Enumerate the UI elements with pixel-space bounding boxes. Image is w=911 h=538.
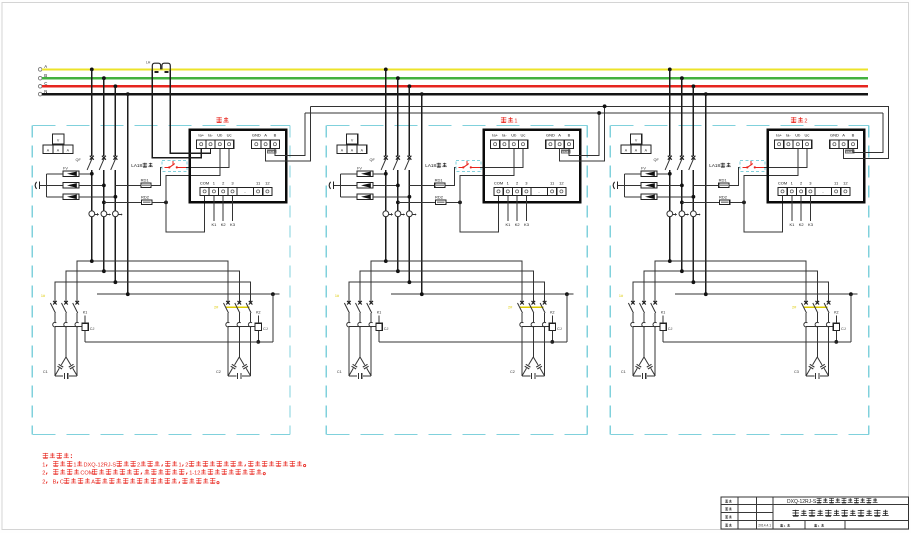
svg-text:DXQ-12RJ-S: DXQ-12RJ-S	[84, 462, 117, 468]
svg-text:2: 2	[804, 119, 807, 125]
svg-text:Ia+: Ia+	[776, 133, 782, 138]
svg-text:K2: K2	[515, 222, 521, 227]
unit2 RS485 tag	[561, 150, 571, 154]
unit2 title fuji1	[501, 117, 518, 124]
svg-text:CJ: CJ	[557, 327, 562, 331]
unit2 controller comm terminals GND A B	[546, 133, 574, 149]
unit1 wire CT to Ia-	[170, 69, 210, 153]
svg-text:K1: K1	[505, 222, 511, 227]
unit2 fuse RD2	[396, 194, 462, 204]
unit2 contactor CJ (bank 1)	[335, 294, 376, 327]
svg-text:CJ: CJ	[90, 327, 95, 331]
title block table	[721, 497, 909, 529]
unit3 fuse RD2	[680, 194, 746, 204]
unit1 rail neutral (R4)	[97, 292, 280, 342]
unit1 circuit breaker QF	[76, 156, 118, 211]
svg-text:A: A	[558, 133, 561, 138]
unit1 capacitor bank C2	[216, 327, 251, 379]
unit1 wire terminal A to trunk	[266, 106, 311, 161]
unit2 contactor coil CJ/K1 (bank 1)	[376, 311, 389, 342]
unit2 wire LA18 to Uc terminal	[480, 149, 523, 168]
svg-text:C2: C2	[510, 370, 515, 374]
svg-text:2: 2	[42, 471, 45, 477]
svg-text:K3: K3	[230, 222, 236, 227]
svg-text:12: 12	[559, 181, 564, 186]
bus C phase line	[38, 81, 868, 88]
svg-text:C1: C1	[337, 370, 342, 374]
svg-text:LA18: LA18	[131, 163, 142, 168]
unit1 tap wire N	[126, 92, 130, 294]
svg-text:QF: QF	[654, 158, 660, 162]
unit3 contactor coil CJ/K1 (bank 1)	[660, 311, 673, 342]
unit2 wire terminal B to trunk	[569, 113, 599, 156]
unit2 wire Ub to RD2 and COM	[460, 149, 514, 232]
svg-text:1: 1	[73, 462, 76, 468]
svg-text:..: ..	[822, 189, 824, 194]
svg-text:Uc: Uc	[521, 133, 526, 138]
unit3 dashed enclosure	[610, 125, 869, 434]
unit2 rail phase C (R3)	[349, 280, 545, 302]
svg-text:A: A	[264, 133, 267, 138]
unit2 panel meters V and A	[337, 134, 367, 153]
svg-text:C: C	[60, 480, 64, 486]
svg-text:RD2: RD2	[719, 194, 728, 199]
svg-text:LA18: LA18	[709, 163, 720, 168]
unit2 circuit breaker QF	[370, 156, 412, 211]
unit2 output wires K1 K2 K3	[505, 196, 529, 227]
unit2 tap wire N	[420, 92, 424, 294]
unit3 tap wire N	[704, 92, 708, 294]
svg-text:QF: QF	[76, 158, 82, 162]
unit1 current meters row	[89, 211, 123, 282]
unit2 trunk junction dots	[597, 104, 606, 115]
unit3 rail phase A (R1)	[655, 259, 806, 302]
unit1 capacitor bank C1	[43, 327, 77, 379]
unit2 controller output terminals COM 1 2 3 .. 11 12	[494, 181, 566, 196]
svg-text:12: 12	[265, 181, 270, 186]
bus B phase line	[38, 73, 868, 80]
svg-text:B: B	[53, 480, 57, 486]
unit3 surge arresters FV	[624, 167, 695, 200]
unit3 rail phase B (R2)	[644, 269, 817, 302]
svg-text:K2: K2	[221, 222, 227, 227]
unit2 tap wire phase A	[384, 68, 388, 156]
svg-text:FV: FV	[641, 167, 646, 171]
svg-text:Ia-: Ia-	[786, 133, 791, 138]
unit3 title fuji2	[791, 117, 808, 124]
svg-text:K2: K2	[256, 311, 260, 315]
svg-text:A: A	[91, 480, 95, 486]
unit1 tap wire phase A	[90, 68, 94, 156]
unit3 panel meters V and A	[621, 134, 651, 153]
unit3 controller box	[768, 130, 865, 203]
unit1 controller input terminals Ia+ Ia- Ub Uc	[197, 133, 234, 149]
svg-text:CJ: CJ	[384, 327, 389, 331]
svg-text:Ia+: Ia+	[198, 133, 204, 138]
unit1 ground / earth symbol	[35, 182, 46, 190]
svg-text:GND: GND	[546, 133, 555, 138]
svg-text:K1: K1	[661, 311, 665, 315]
svg-text:Ia-: Ia-	[208, 133, 213, 138]
unit1 contactor CJ (bank 2)	[214, 301, 255, 327]
unit1 controller comm terminals GND A B	[252, 133, 280, 149]
svg-text:B: B	[568, 133, 571, 138]
unit2 ground / earth symbol	[329, 182, 340, 190]
unit1 tap wire phase B	[102, 76, 106, 156]
unit1 controller box	[190, 130, 287, 203]
unit1 tap wire phase C	[114, 84, 118, 155]
unit2 current meters row	[383, 211, 417, 282]
unit3 contactor CJ (bank 1)	[619, 294, 660, 327]
unit2 rail neutral (R4)	[391, 292, 574, 342]
svg-text:CJ: CJ	[668, 327, 673, 331]
svg-text:RD2: RD2	[141, 194, 150, 199]
svg-text:CJ: CJ	[841, 327, 846, 331]
unit3 wire LA18 to Uc terminal	[764, 149, 807, 168]
svg-text:2: 2	[42, 480, 45, 486]
unit3 output wires K1 K2 K3	[789, 196, 813, 227]
svg-text:K2: K2	[834, 311, 838, 315]
unit3 tap wire phase A	[668, 68, 672, 156]
svg-text:..: ..	[538, 189, 540, 194]
svg-text:K2: K2	[550, 311, 554, 315]
svg-text:12: 12	[843, 181, 848, 186]
unit1 rail phase A (R1)	[77, 259, 228, 302]
unit2 capacitor bank C1	[337, 327, 371, 379]
svg-text:GND: GND	[830, 133, 839, 138]
unit2 fuse RD1	[409, 167, 459, 187]
unit3 fuse RD1	[693, 167, 743, 187]
unit3 wire terminal B to trunk (wrap)	[853, 113, 883, 152]
unit3 rail neutral (R4)	[675, 292, 858, 342]
svg-text:COM: COM	[80, 471, 93, 477]
svg-text:K1: K1	[789, 222, 795, 227]
unit3 wire Ub to RD2 and COM	[744, 149, 798, 232]
RS485 trunk wire A (upper)	[311, 105, 890, 107]
svg-text:A: A	[842, 133, 845, 138]
unit1 surge arresters FV	[46, 167, 117, 200]
unit3 controller input terminals Ia+ Ia- Ub Uc	[775, 133, 812, 149]
technical notes (red)	[43, 453, 72, 458]
svg-text:1: 1	[179, 462, 182, 468]
svg-text:FV: FV	[63, 167, 68, 171]
unit3 switch LA18 (emergency)	[709, 161, 765, 172]
svg-text:DXQ-12RJ-S: DXQ-12RJ-S	[787, 499, 817, 505]
svg-text:RD1: RD1	[141, 177, 150, 182]
RS485 trunk wire B (lower)	[305, 112, 883, 114]
svg-text:LA18: LA18	[425, 163, 436, 168]
unit2 rail phase A (R1)	[371, 259, 522, 302]
svg-text:K2: K2	[799, 222, 805, 227]
svg-text:COM: COM	[778, 181, 787, 186]
unit3 tap wire phase B	[680, 76, 684, 156]
unit3 capacitor bank C3	[794, 327, 829, 379]
unit1 panel meters V and A	[43, 134, 73, 153]
svg-text:GND: GND	[252, 133, 261, 138]
unit1 wire Ub to RD2 and COM	[166, 149, 220, 232]
svg-text:Ub: Ub	[511, 133, 517, 138]
unit2 controller box	[484, 130, 581, 203]
unit2 switch LA18 (emergency)	[425, 161, 481, 172]
unit1 output wires K1 K2 K3	[211, 196, 235, 227]
unit1 current transformer CT on phase A	[146, 61, 170, 73]
svg-text:Ia+: Ia+	[492, 133, 498, 138]
unit2 dashed enclosure	[326, 125, 587, 434]
svg-text:K3: K3	[808, 222, 814, 227]
unit2 tap wire phase C	[408, 84, 412, 155]
svg-text:Ub: Ub	[217, 133, 223, 138]
unit1 contactor coil CJ/K2 (bank 2)	[255, 311, 268, 344]
unit1 switch LA18 (emergency)	[131, 161, 187, 172]
unit1 coil return wire to neutral	[85, 341, 273, 343]
unit1 title zhuji	[216, 117, 228, 122]
unit1 controller output terminals COM 1 2 3 .. 11 12	[200, 181, 272, 196]
svg-text:FV: FV	[357, 167, 362, 171]
unit3 coil return wire to neutral	[663, 341, 851, 343]
unit3 capacitor bank C1	[621, 327, 655, 379]
unit1 dashed enclosure	[32, 125, 290, 434]
svg-text:C1: C1	[43, 370, 48, 374]
unit3 controller output terminals COM 1 2 3 .. 11 12	[778, 181, 850, 196]
unit2 contactor CJ (bank 2)	[508, 301, 549, 327]
svg-text:Uc: Uc	[227, 133, 232, 138]
unit1 wire terminal B to trunk	[275, 113, 305, 156]
unit3 contactor coil CJ/K2 (bank 2)	[833, 311, 846, 344]
unit3 controller comm terminals GND A B	[830, 133, 858, 149]
unit3 rail phase C (R3)	[633, 280, 829, 302]
svg-text:C2: C2	[216, 370, 221, 374]
svg-text:2: 2	[185, 462, 188, 468]
svg-text:CJ: CJ	[263, 327, 268, 331]
unit1 rail phase C (R3)	[55, 280, 251, 302]
svg-text:RD1: RD1	[435, 177, 444, 182]
unit3 RS485 tag	[845, 150, 855, 154]
svg-text:Uc: Uc	[805, 133, 810, 138]
svg-text:B: B	[852, 133, 855, 138]
svg-text:RD2: RD2	[435, 194, 444, 199]
svg-text:RD1: RD1	[719, 177, 728, 182]
unit3 wire terminal A to trunk (wrap)	[844, 106, 889, 158]
unit2 rail phase B (R2)	[360, 269, 533, 302]
svg-text:C3: C3	[794, 370, 799, 374]
unit2 capacitor bank C2	[510, 327, 545, 379]
svg-text:K3: K3	[524, 222, 530, 227]
svg-text:QF: QF	[370, 158, 376, 162]
bus A phase line	[38, 64, 868, 71]
bus N phase line	[38, 89, 868, 96]
unit2 controller input terminals Ia+ Ia- Ub Uc	[491, 133, 528, 149]
svg-text:COM: COM	[494, 181, 503, 186]
unit2 tap wire phase B	[396, 76, 400, 156]
unit1 contactor coil CJ/K1 (bank 1)	[82, 311, 95, 342]
unit1 contactor CJ (bank 1)	[41, 294, 82, 327]
unit1 rail phase B (R2)	[66, 269, 239, 302]
svg-text:1: 1	[42, 462, 45, 468]
unit3 current meters row	[667, 211, 701, 282]
unit1 wire CT to Ia+	[152, 69, 201, 157]
svg-text:C1: C1	[621, 370, 626, 374]
unit2 coil return wire to neutral	[379, 341, 567, 343]
unit1 wire LA18 to Uc terminal	[186, 149, 229, 168]
svg-text:COM: COM	[200, 181, 209, 186]
unit1 RS485 tag	[267, 150, 277, 154]
unit3 contactor CJ (bank 2)	[792, 301, 833, 327]
svg-text:2014.4.1: 2014.4.1	[758, 524, 771, 528]
svg-text:K1: K1	[211, 222, 217, 227]
unit1 fuse RD1	[115, 167, 165, 187]
svg-text:Ia-: Ia-	[502, 133, 507, 138]
svg-text:LH: LH	[146, 61, 151, 65]
title block texts	[725, 498, 888, 528]
svg-text:K1: K1	[377, 311, 381, 315]
unit3 tap wire phase C	[692, 84, 696, 155]
svg-text:B: B	[274, 133, 277, 138]
svg-text:Ub: Ub	[795, 133, 801, 138]
unit2 wire terminal A to trunk	[560, 106, 605, 161]
svg-text:K1: K1	[83, 311, 87, 315]
svg-text:..: ..	[244, 189, 246, 194]
svg-text:1: 1	[514, 119, 517, 125]
unit3 ground / earth symbol	[613, 182, 624, 190]
unit3 circuit breaker QF	[654, 156, 696, 211]
svg-text:2: 2	[137, 462, 140, 468]
unit2 contactor coil CJ/K2 (bank 2)	[549, 311, 562, 344]
unit1 fuse RD2	[102, 194, 168, 204]
svg-text:1-12: 1-12	[189, 471, 200, 477]
unit2 surge arresters FV	[340, 167, 411, 200]
